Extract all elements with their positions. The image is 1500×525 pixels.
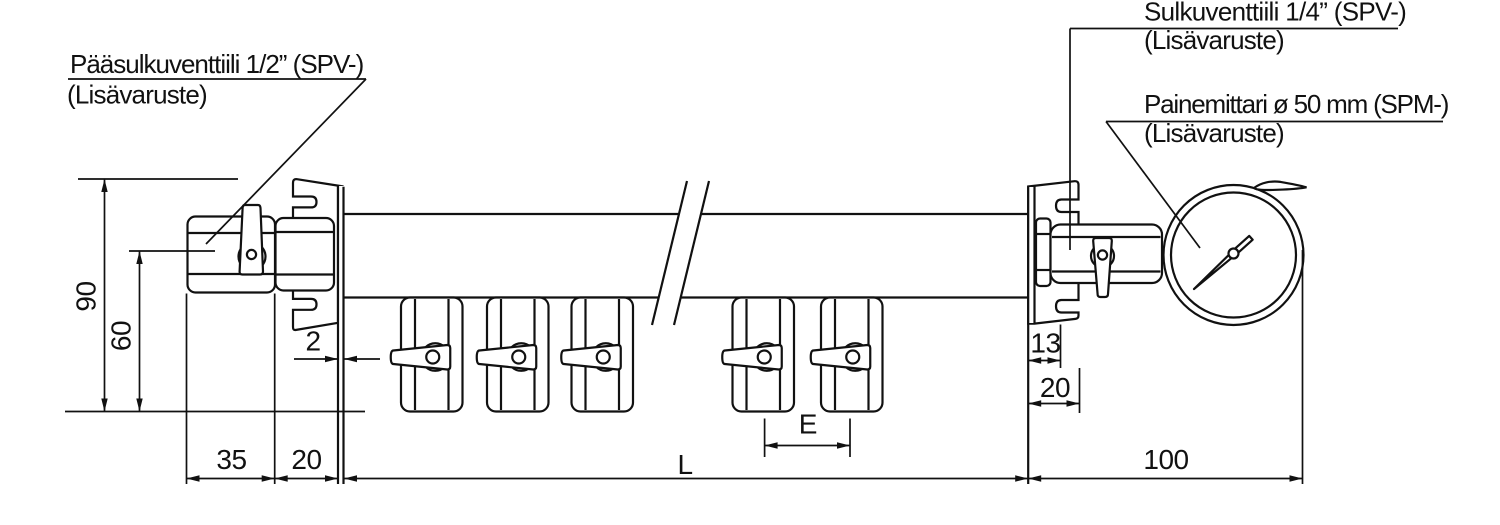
svg-text:35: 35 <box>216 444 246 475</box>
outlet valve 5 hex body <box>821 298 883 412</box>
outlet valve 1 handle pivot <box>426 351 439 364</box>
svg-text:13: 13 <box>1030 328 1060 359</box>
leader painemittari <box>1106 122 1200 249</box>
outlet valve 2 boss <box>508 343 536 371</box>
top reference line (90 dim) <box>78 178 238 180</box>
svg-text:100: 100 <box>1143 444 1188 475</box>
main manifold pipe body <box>344 214 1028 298</box>
svg-text:Painemittari ø 50 mm (SPM-): Painemittari ø 50 mm (SPM-) <box>1144 89 1449 119</box>
svg-text:(Lisävaruste): (Lisävaruste) <box>67 80 207 110</box>
leader sulkuventtiili <box>1069 29 1071 251</box>
gauge needle <box>1194 252 1235 289</box>
svg-text:E: E <box>799 409 817 440</box>
outlet valve 2 handle pivot <box>512 351 525 364</box>
left mounting bracket <box>293 179 344 330</box>
underline painemittari <box>1106 121 1443 123</box>
E extension lines <box>764 419 766 458</box>
pipe break line 1 <box>652 181 687 325</box>
pipe top edge (left of break) <box>344 213 679 215</box>
left wall plate <box>338 186 344 329</box>
small valve handle pivot <box>1098 250 1107 259</box>
bottom dimension line 35 <box>187 478 275 480</box>
small valve handle lever (pointing down) <box>1093 238 1112 297</box>
dimension 2 left arrow <box>294 358 338 360</box>
pipe bottom edge (left of break) <box>344 296 659 298</box>
small shutoff valve collar hex <box>1036 219 1051 287</box>
90 dimension line <box>104 179 106 412</box>
svg-text:Pääsulkuventtiili 1/2” (SPV-): Pääsulkuventtiili 1/2” (SPV-) <box>70 49 364 79</box>
svg-text:20: 20 <box>1040 372 1070 403</box>
outlet valve 2 hex body <box>487 298 549 412</box>
svg-text:Sulkuventtiili 1/4” (SPV-): Sulkuventtiili 1/4” (SPV-) <box>1144 0 1406 27</box>
outlet valve 3 handle pivot <box>597 351 610 364</box>
svg-text:2: 2 <box>305 326 320 357</box>
gauge top tab <box>1254 182 1307 190</box>
E dimension line <box>765 445 850 447</box>
outlet valve 4 handle pivot <box>758 351 771 364</box>
dimension line L <box>344 478 1028 480</box>
extension line at x=186.5 <box>186 294 188 485</box>
main shutoff valve right hex nut <box>276 218 335 291</box>
60 dimension line <box>139 251 141 412</box>
leader left label <box>206 79 366 244</box>
pipe top edge (right of break) <box>701 213 1028 215</box>
bottom dimension line 20 <box>275 478 338 480</box>
centerline extension (60 dim) <box>129 250 215 252</box>
13 dimension line <box>1028 360 1060 362</box>
dimension 2 right arrow <box>344 358 380 360</box>
outlet valve 5 handle pivot <box>846 351 859 364</box>
outlet valve 1 hex body <box>401 298 463 412</box>
small valve boss <box>1091 245 1114 268</box>
svg-text:L: L <box>677 449 692 480</box>
main shutoff valve left hex body <box>188 217 276 293</box>
outlet valve 5 boss <box>842 343 870 371</box>
extension line at x=274.7 <box>274 294 276 485</box>
underline sulkuventtiili <box>1070 28 1398 30</box>
pressure gauge inner rim <box>1171 193 1296 318</box>
pressure gauge outer rim <box>1164 185 1304 325</box>
outlet valve 3 hex body <box>572 298 634 412</box>
outlet valve 1 boss <box>422 343 450 371</box>
outlet valve 5 handle lever <box>811 345 871 370</box>
main valve handle pivot <box>247 250 256 259</box>
right mounting bracket <box>1028 181 1078 323</box>
outlet valve 1 handle lever <box>391 345 451 370</box>
svg-text:(Lisävaruste): (Lisävaruste) <box>1144 118 1284 148</box>
main valve boss <box>239 243 266 270</box>
underline left label <box>68 78 366 80</box>
outlet valve 3 boss <box>592 343 620 371</box>
pipe break line 2 <box>674 181 709 325</box>
outlet valve 4 handle lever <box>722 345 782 370</box>
outlet valve 2 handle lever <box>477 345 537 370</box>
13 extension line <box>1060 325 1062 369</box>
svg-text:20: 20 <box>291 444 321 475</box>
right 20 dimension line <box>1028 403 1079 405</box>
svg-text:90: 90 <box>71 281 102 311</box>
svg-text:60: 60 <box>106 321 137 351</box>
outlet valve 4 hex body <box>733 298 795 412</box>
outlet valve 3 handle lever <box>561 345 621 370</box>
svg-text:(Lisävaruste): (Lisävaruste) <box>1144 25 1284 55</box>
extension line at gauge right <box>1302 250 1304 484</box>
dimension line 100 <box>1028 478 1302 480</box>
baseline reference line <box>65 411 365 413</box>
small shutoff valve body <box>1051 225 1163 284</box>
gauge needle counterweight stub <box>1234 236 1252 253</box>
main valve handle lever <box>240 205 263 275</box>
pipe bottom edge (right of break) <box>681 296 1028 298</box>
outlet valve 4 boss <box>753 343 781 371</box>
right wall plate <box>1028 187 1034 323</box>
right 20 extension line <box>1079 368 1081 413</box>
gauge center hub <box>1229 249 1239 259</box>
